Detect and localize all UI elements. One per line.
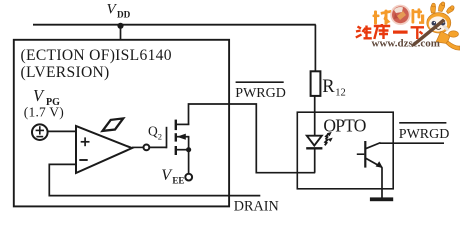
junction dot source-body — [186, 147, 191, 152]
watermark logo dzsc — [356, 2, 460, 50]
op-amp comparator U1 — [76, 126, 132, 173]
wire Q2 source and body to VEE — [188, 137, 190, 174]
svg-text:V: V — [107, 2, 118, 18]
phototransistor — [357, 141, 383, 168]
node VPG label — [33, 86, 60, 108]
svg-text:Q: Q — [148, 124, 158, 139]
transistor Q2 MOSFET — [167, 120, 190, 155]
wire VPG source to comparator plus input — [48, 130, 76, 132]
hysteresis symbol — [103, 118, 124, 130]
svg-text:PWRGD: PWRGD — [399, 127, 450, 142]
svg-text:(ECTION OF)ISL6140: (ECTION OF)ISL6140 — [21, 47, 172, 64]
svg-text:OPTO: OPTO — [323, 115, 365, 135]
svg-text:2: 2 — [158, 132, 162, 142]
resistor R12 — [311, 71, 346, 98]
optocoupler box — [297, 112, 393, 189]
junction VDD dot — [117, 23, 123, 29]
wire R12 to LED anode — [314, 96, 316, 136]
svg-text:(LVERSION): (LVERSION) — [21, 64, 110, 81]
svg-text:V: V — [33, 86, 45, 105]
svg-text:DD: DD — [117, 10, 131, 20]
wire comparator inverting input from DRAIN net — [49, 164, 260, 195]
wire Q2 drain up and right to opto LED cathode — [189, 104, 316, 173]
IC box ISL6140 — [14, 40, 229, 207]
label Q2 — [148, 124, 162, 142]
svg-text:DRAIN: DRAIN — [234, 199, 279, 215]
svg-text:EE: EE — [172, 175, 184, 185]
svg-text:(1.7 V): (1.7 V) — [24, 105, 64, 120]
wire comparator output to Q2 gate — [149, 146, 166, 148]
wire VDD rail down to R12 — [314, 25, 316, 72]
LED opto emitter diode — [306, 136, 322, 173]
svg-text:12: 12 — [335, 87, 346, 98]
wire VDD rail — [33, 24, 316, 26]
svg-text:R: R — [322, 77, 335, 97]
output bubble of comparator — [132, 145, 149, 151]
label VEE — [161, 167, 184, 186]
ground — [370, 197, 393, 201]
node VDD label — [107, 2, 131, 20]
label PWRGD (IC output pin) — [235, 82, 286, 101]
svg-text:PWRGD: PWRGD — [235, 86, 286, 101]
voltage source VPG 1.7V — [32, 124, 48, 140]
label PWRGD output — [399, 123, 450, 142]
wire collector to PWRGD output — [380, 142, 444, 144]
terminal VEE — [185, 174, 192, 181]
light emission arrows — [325, 132, 333, 145]
wire emitter to ground — [381, 167, 383, 198]
wire VDD dot to IC box — [120, 26, 122, 40]
svg-text:www.dzsc.com: www.dzsc.com — [372, 38, 440, 50]
